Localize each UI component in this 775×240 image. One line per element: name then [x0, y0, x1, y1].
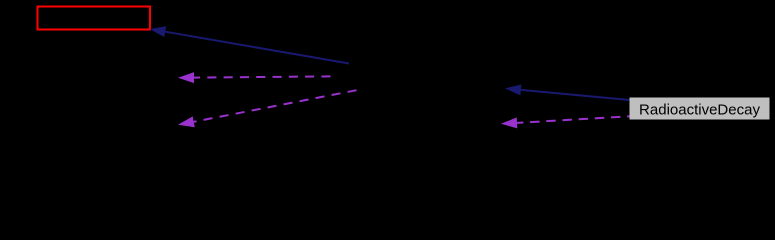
svg-text:RadioactiveDecay: RadioactiveDecay	[639, 102, 760, 119]
